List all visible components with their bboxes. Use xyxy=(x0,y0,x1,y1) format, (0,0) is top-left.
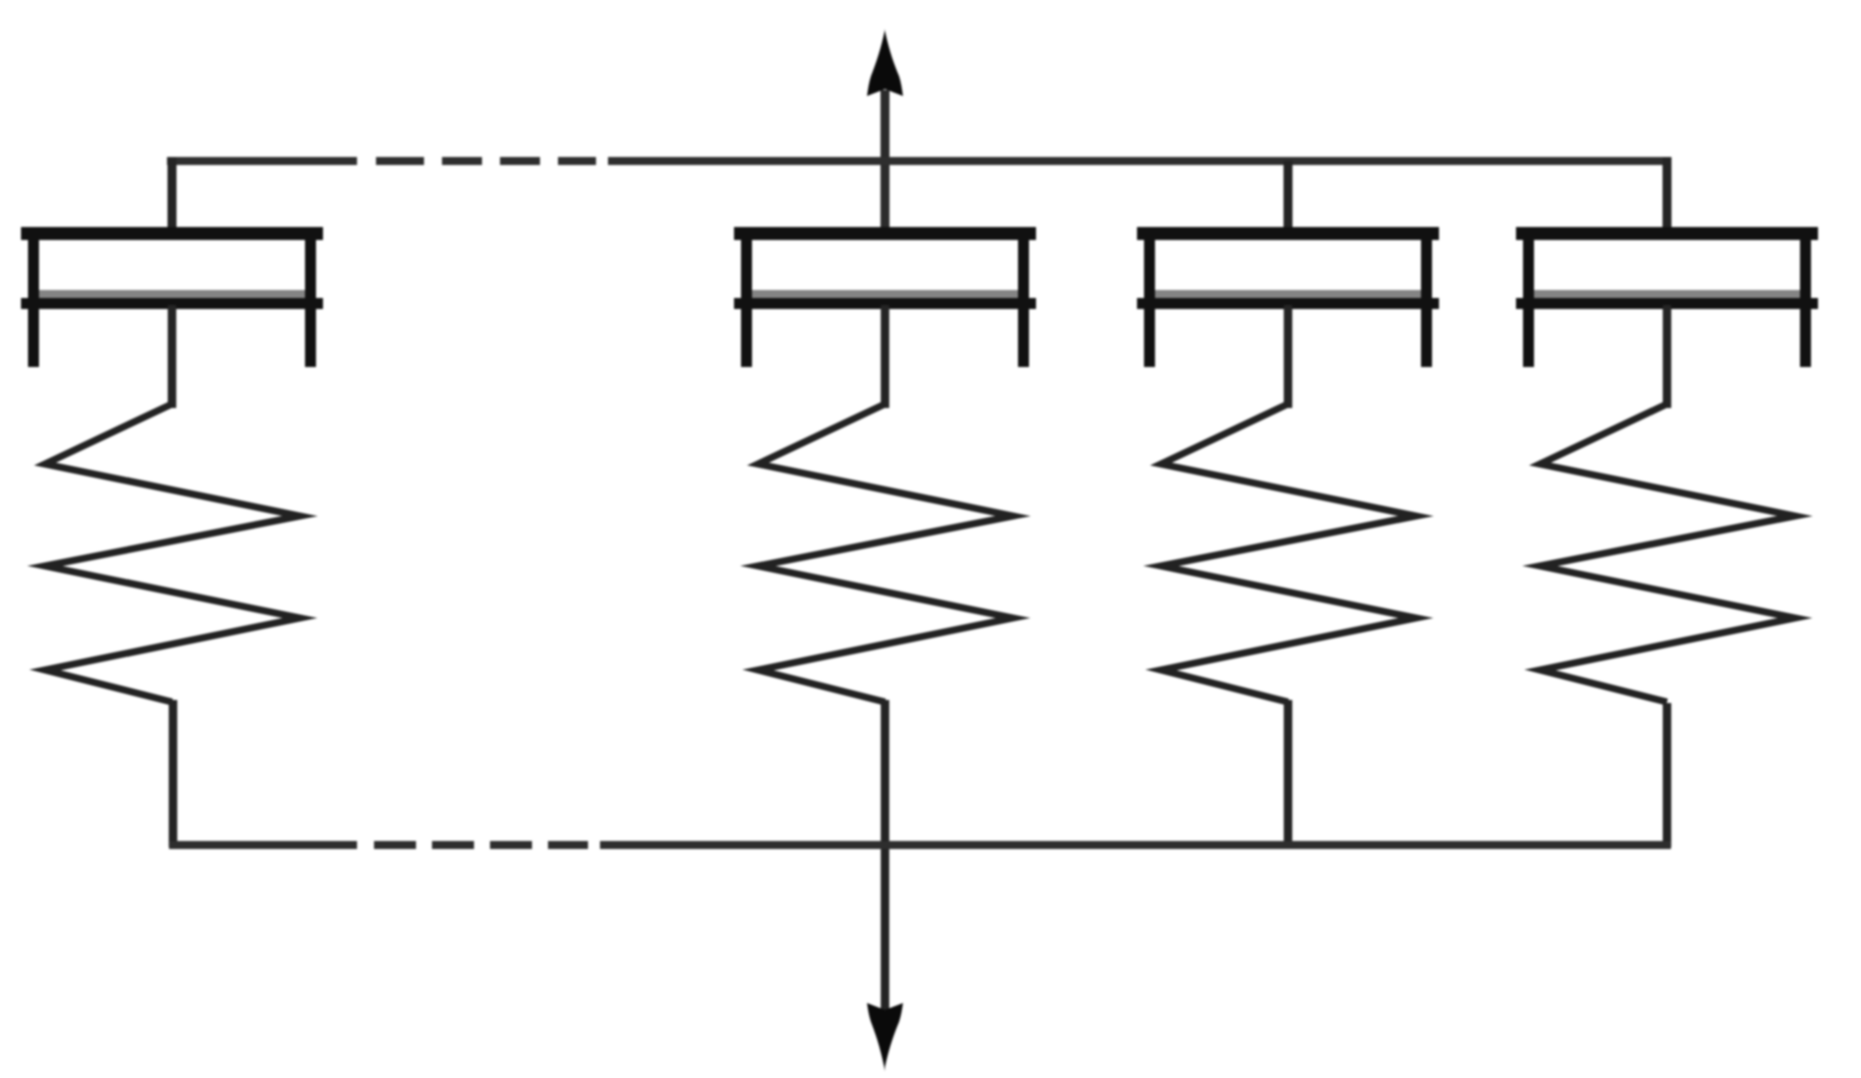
friction slider S4 xyxy=(1516,227,1818,367)
spring k3 xyxy=(1161,404,1416,702)
wire: stem from top rail corner to slider S4 xyxy=(1663,157,1672,230)
wire: stem from spring k4 to bottom rail corner xyxy=(1663,703,1672,847)
bottom rail wire, solid right segment xyxy=(600,841,1671,849)
force arrow F (bottom) xyxy=(867,1003,903,1071)
friction slider S1 xyxy=(21,227,323,367)
wire: stem from top rail to slider S3 xyxy=(1284,161,1293,230)
friction slider S3 xyxy=(1137,227,1439,367)
wire: stem from spring k1 to bottom rail xyxy=(169,700,178,847)
bottom rail wire (lower node), solid left segment xyxy=(169,841,357,849)
wire: stem from slider S1 to spring k1 xyxy=(168,305,177,408)
wire: stem from spring k2 through bottom rail to arrow xyxy=(881,700,890,1010)
spring k2 xyxy=(758,404,1013,702)
friction slider S2 xyxy=(734,227,1036,367)
wire: stem from spring k3 to bottom rail xyxy=(1284,700,1293,845)
spring k1 xyxy=(45,404,300,702)
spring k4 xyxy=(1540,404,1795,702)
wire: stem from top rail to slider S1 xyxy=(168,157,177,230)
wire: stem from slider S4 to spring k4 xyxy=(1663,305,1672,408)
top rail wire, solid right segment xyxy=(608,157,1671,165)
top rail wire, dashed continuation segment xyxy=(376,157,596,165)
force arrow F (top) xyxy=(867,29,903,227)
bottom rail wire, dashed continuation segment xyxy=(374,841,588,849)
top rail wire (upper node), solid left segment xyxy=(167,157,357,165)
wire: stem from slider S3 to spring k3 xyxy=(1284,305,1293,408)
wire: stem from slider S2 to spring k2 xyxy=(881,305,890,408)
